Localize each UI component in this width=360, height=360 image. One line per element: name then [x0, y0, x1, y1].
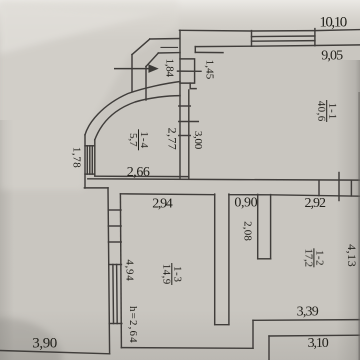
wall pier vertical B	[188, 90, 190, 179]
room 1-3 right wall line 2	[228, 194, 230, 324]
left wall tick	[108, 209, 121, 211]
svg-text:0,90: 0,90	[234, 195, 257, 210]
door jamb in wall 1-1/1-2	[350, 180, 352, 196]
svg-text:17,2: 17,2	[303, 249, 315, 268]
main horizontal wall upper line	[88, 179, 360, 180]
door jamb near 9,05 start	[194, 47, 196, 53]
wall tick	[179, 105, 191, 107]
wall pier vertical A	[179, 30, 181, 179]
svg-text:3,10: 3,10	[308, 336, 329, 351]
room 1-3 bottom wall	[121, 347, 253, 350]
entry outer chamfer top	[150, 38, 180, 41]
dimension tick x335	[338, 173, 340, 201]
svg-text:4,13: 4,13	[345, 244, 359, 267]
door jamb in wall 1-1/1-2	[318, 180, 320, 195]
room label 1-3 over 14,9	[160, 263, 183, 285]
left wall tick	[108, 225, 121, 227]
svg-text:3,39: 3,39	[297, 305, 319, 320]
svg-text:2,77: 2,77	[166, 128, 180, 150]
room label 1-1 over 40,6	[315, 100, 338, 122]
duct box midline	[178, 70, 202, 72]
window 4,94 bottom tick	[109, 323, 122, 325]
svg-text:3,00: 3,00	[192, 131, 204, 150]
svg-text:14,9: 14,9	[160, 264, 172, 285]
window 4,94 top tick	[109, 264, 122, 266]
window 1,78 glazing	[86, 146, 88, 174]
room 1-3 top wall	[120, 193, 214, 196]
svg-text:2,92: 2,92	[304, 196, 326, 211]
svg-text:10,10: 10,10	[319, 15, 347, 31]
exterior wall inner line left	[120, 194, 121, 348]
window 1,78 top tick	[85, 145, 95, 147]
svg-text:2,66: 2,66	[127, 165, 150, 180]
lower rooms top wall line	[229, 195, 360, 197]
entry outer chamfer diagonal	[132, 39, 150, 55]
svg-text:1,45: 1,45	[203, 60, 215, 80]
duct box	[180, 59, 195, 83]
exterior wall outer line left	[108, 188, 110, 354]
svg-text:1,84: 1,84	[164, 59, 176, 78]
svg-text:2,94: 2,94	[152, 196, 173, 211]
svg-text:9,05: 9,05	[321, 48, 343, 63]
exterior bottom-left line 3,90	[0, 351, 110, 354]
svg-text:2,08: 2,08	[242, 221, 254, 241]
closet partition left line	[257, 194, 259, 258]
left wall tick	[109, 241, 122, 243]
curved wall inner arc	[95, 96, 180, 140]
top wall outer line	[180, 30, 360, 31]
left wall bottom jog	[84, 187, 108, 189]
room 1-4 left wall outer	[84, 135, 86, 188]
window 4,94 glazing	[112, 265, 115, 324]
room 1-3 right wall line 1	[214, 194, 216, 324]
window 1,78 bottom tick	[85, 173, 95, 175]
room 1-2 left step	[252, 320, 254, 348]
window top-right: inner glazing lines	[252, 35, 315, 38]
window left jamb	[251, 31, 253, 47]
balcony left line	[268, 336, 270, 360]
room 1-4 bottom inner line	[95, 175, 189, 177]
window right jamb	[314, 29, 316, 46]
entry direction arrow	[114, 65, 157, 71]
room 1-4 left wall inner	[94, 140, 96, 176]
entry inner chamfer top	[158, 52, 180, 54]
room label 1-4 over 5,7	[127, 129, 150, 150]
room 1-2 bottom wall	[253, 319, 360, 322]
svg-text:4,94: 4,94	[123, 259, 135, 281]
wall tick long	[179, 121, 199, 123]
balcony top line 3,10	[269, 334, 360, 337]
svg-text:5,7: 5,7	[127, 133, 139, 147]
short inner ledge line	[195, 51, 223, 53]
photo right edge line	[358, 92, 360, 360]
entry inner chamfer diagonal	[146, 53, 158, 67]
closet partition bottom cap	[258, 258, 271, 260]
closet partition right line	[270, 195, 272, 259]
door lintel line	[161, 46, 178, 48]
room 1-3 right wall bottom cap	[215, 324, 229, 326]
top wall inner line left segment	[195, 45, 251, 47]
entry outer wall vertical	[131, 55, 133, 92]
svg-text:1,78: 1,78	[71, 147, 83, 168]
window bottom line	[252, 45, 315, 48]
curved wall outer arc	[85, 82, 180, 135]
svg-text:40,6: 40,6	[315, 101, 327, 122]
entry inner wall vertical	[145, 67, 147, 101]
duct box lower step	[190, 83, 196, 89]
room label 1-2 over 17,2	[303, 248, 326, 267]
top wall inner line right segment	[315, 44, 360, 47]
wall tick	[179, 135, 191, 137]
svg-text:3,90: 3,90	[32, 335, 57, 351]
